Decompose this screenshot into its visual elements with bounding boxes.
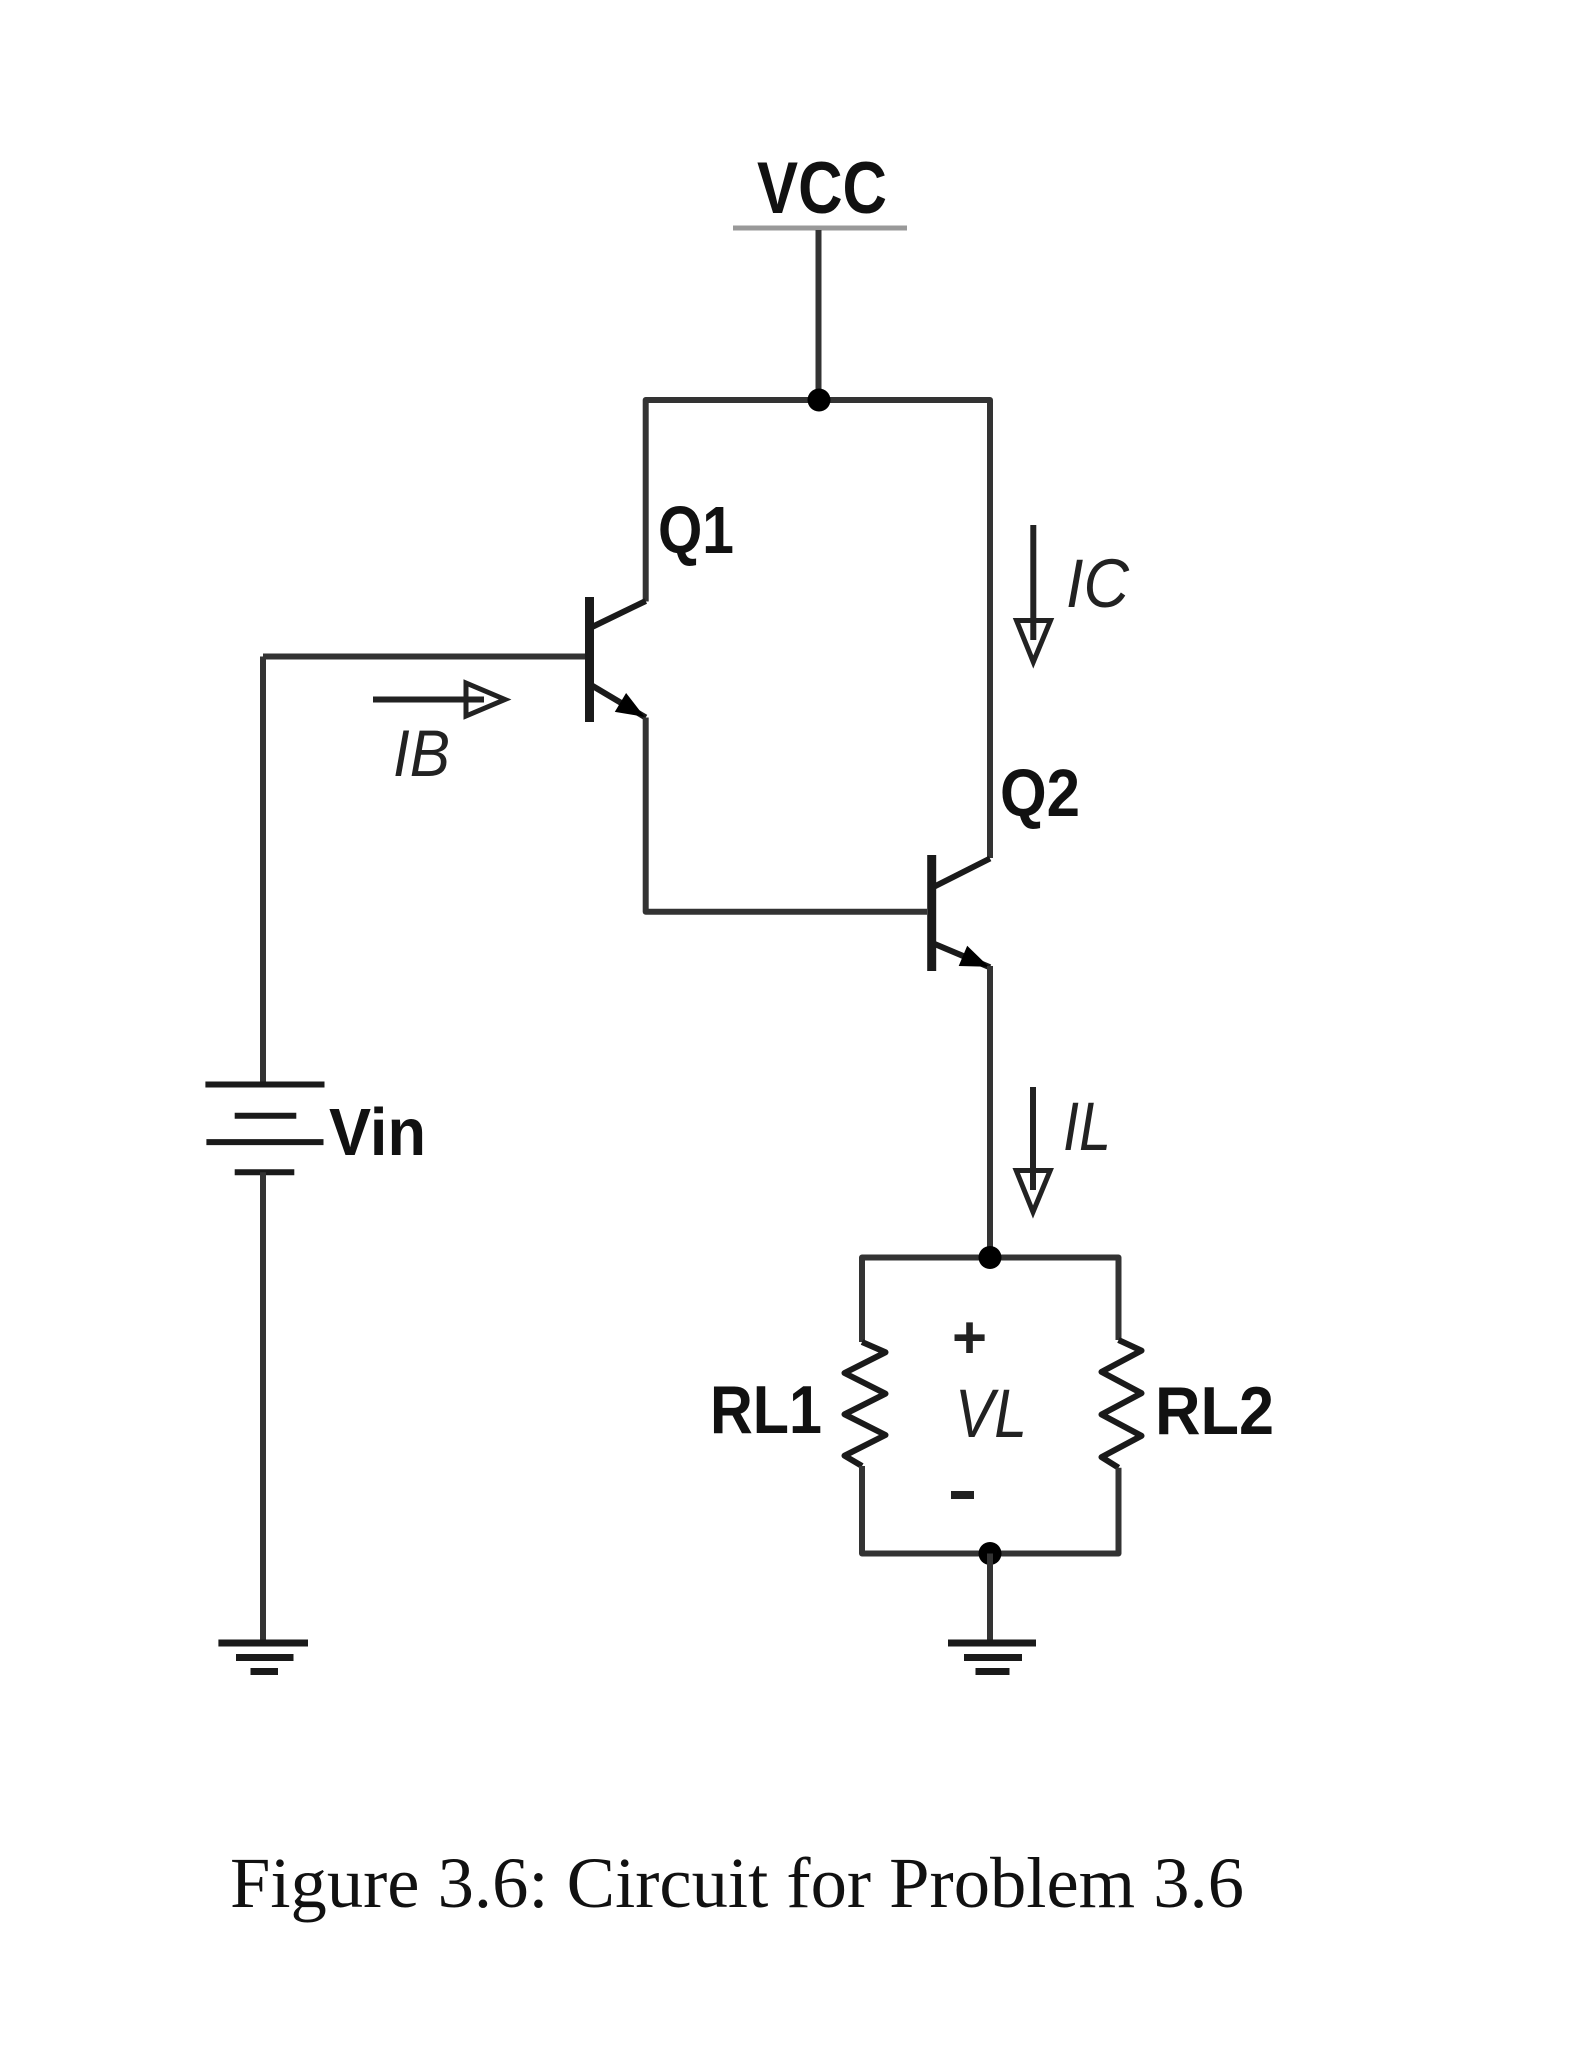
ground (Vin) <box>218 1643 308 1672</box>
wire top rail <box>646 400 990 858</box>
wire Vin bottom <box>260 1172 266 1643</box>
wire Q2 emitter down <box>987 966 993 1258</box>
current arrow IL <box>1016 1087 1050 1212</box>
label minus <box>951 1491 974 1499</box>
svg-text:Vin: Vin <box>329 1095 426 1170</box>
svg-text:IC: IC <box>1066 545 1130 622</box>
svg-text:IL: IL <box>1063 1088 1111 1165</box>
battery Vin <box>205 1085 324 1173</box>
wire load loop bottom <box>862 1466 1119 1554</box>
transistor Q1 <box>590 597 646 722</box>
svg-text:Q1: Q1 <box>658 493 734 568</box>
ground (load) <box>948 1643 1036 1672</box>
svg-text:Q2: Q2 <box>1000 756 1080 831</box>
svg-text:Figure 3.6: Circuit for Proble: Figure 3.6: Circuit for Problem 3.6 <box>230 1842 1244 1923</box>
svg-text:VL: VL <box>955 1375 1027 1452</box>
wire Q1 base <box>263 654 585 660</box>
VCC rail bar <box>733 226 907 231</box>
wire to center ground <box>987 1554 993 1644</box>
wire VCC stub <box>816 230 822 400</box>
junction load top dot <box>979 1246 1002 1269</box>
wire Q1 emitter to Q2 base <box>646 718 927 912</box>
svg-text:VCC: VCC <box>757 148 887 229</box>
svg-text:IB: IB <box>393 716 450 790</box>
wire Vin top <box>260 657 266 1085</box>
junction VCC node dot <box>808 389 831 412</box>
svg-text:+: + <box>952 1304 987 1371</box>
svg-text:RL2: RL2 <box>1155 1373 1274 1449</box>
current arrow IC <box>1017 525 1051 662</box>
svg-text:RL1: RL1 <box>710 1372 822 1448</box>
junction load bottom dot <box>979 1542 1002 1565</box>
wire load loop top <box>862 1258 1119 1343</box>
transistor Q2 <box>932 855 990 971</box>
resistor RL2 <box>1102 1340 1142 1468</box>
resistor RL1 <box>845 1342 886 1466</box>
current arrow IB <box>373 683 505 716</box>
